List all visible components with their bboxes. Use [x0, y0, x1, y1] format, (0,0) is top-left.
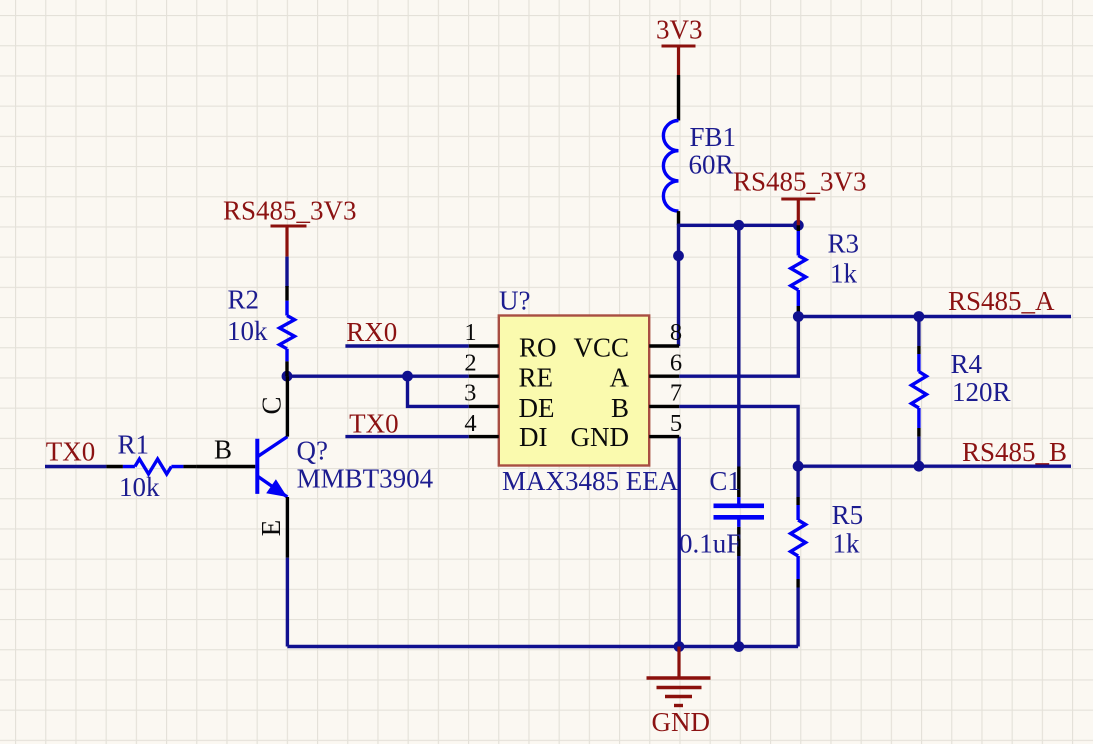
svg-text:B: B [214, 435, 232, 465]
pin 4 DI [464, 410, 547, 452]
svg-text:10k: 10k [119, 472, 160, 502]
svg-text:RS485_A: RS485_A [948, 286, 1055, 316]
svg-text:4: 4 [464, 410, 476, 437]
svg-text:RX0: RX0 [346, 317, 397, 347]
resistor R1 [106, 429, 196, 502]
svg-text:MMBT3904: MMBT3904 [297, 463, 434, 493]
power port 3V3 [656, 15, 703, 76]
pin 5 GND [571, 410, 683, 452]
svg-text:R3: R3 [828, 229, 860, 259]
wire TX0 left [45, 465, 106, 468]
svg-text:R1: R1 [118, 429, 150, 459]
svg-text:GND: GND [652, 707, 711, 737]
wire port to R2 [285, 257, 288, 287]
svg-text:R5: R5 [832, 500, 864, 530]
svg-text:RS485_3V3: RS485_3V3 [733, 167, 867, 197]
svg-text:A: A [610, 363, 630, 393]
resistor R3 [791, 225, 859, 316]
resistor R5 [791, 466, 864, 646]
power port RS485_3V3 right [733, 167, 867, 226]
junction dot [793, 311, 804, 322]
svg-text:TX0: TX0 [349, 409, 399, 439]
junction dot [674, 641, 685, 652]
junction dot [793, 220, 804, 231]
pin 6 A [610, 350, 683, 393]
capacitor C1 [679, 225, 764, 646]
svg-text:3V3: 3V3 [656, 15, 703, 45]
wire A to pin 6 [679, 317, 798, 377]
inductor FB1 [663, 75, 736, 225]
junction dot [914, 311, 925, 322]
svg-text:RO: RO [519, 333, 557, 363]
junction dot [673, 250, 684, 261]
pin 8 VCC [573, 319, 682, 362]
wire top bus VCC [679, 224, 799, 227]
svg-text:1k: 1k [833, 529, 861, 559]
svg-text:DE: DE [519, 393, 555, 423]
svg-text:FB1: FB1 [690, 122, 737, 152]
net label TX0 [349, 409, 399, 439]
svg-text:6: 6 [670, 350, 682, 377]
wire pin 5 down [678, 437, 681, 647]
svg-text:120R: 120R [952, 377, 1011, 407]
power port RS485_3V3 left [223, 196, 357, 257]
svg-text:1k: 1k [830, 259, 858, 289]
svg-text:C: C [257, 396, 287, 414]
junction dot [282, 371, 293, 382]
transistor Q1 MMBT3904 [196, 376, 433, 558]
svg-text:GND: GND [571, 422, 630, 452]
svg-text:8: 8 [670, 319, 682, 346]
svg-text:B: B [611, 393, 629, 423]
svg-text:R2: R2 [228, 284, 260, 314]
svg-text:Q?: Q? [297, 436, 328, 466]
svg-text:TX0: TX0 [46, 437, 96, 467]
junction dot [402, 371, 413, 382]
power port GND [647, 647, 711, 738]
svg-text:5: 5 [670, 410, 682, 437]
svg-text:C1: C1 [709, 466, 741, 496]
junction dot [733, 220, 744, 231]
svg-text:10k: 10k [227, 316, 268, 346]
junction dot [914, 461, 925, 472]
net label TX0 left [46, 437, 96, 467]
svg-text:E: E [256, 520, 286, 537]
svg-text:2: 2 [464, 350, 476, 377]
wire RE DE tie [287, 376, 469, 406]
IC U1 MAX3485 [499, 286, 679, 497]
wire RX0 to pin 1 [345, 344, 468, 347]
wire VCC drop to pin 8 [677, 224, 680, 346]
svg-text:1: 1 [464, 319, 476, 346]
junction dot [733, 641, 744, 652]
svg-text:MAX3485 EEA: MAX3485 EEA [502, 466, 679, 496]
net label RS485_A [948, 286, 1055, 316]
pin 3 DE [464, 380, 554, 423]
svg-text:U?: U? [499, 286, 530, 316]
net label RS485_B [962, 437, 1067, 467]
wire RS485_A row [798, 315, 1071, 318]
svg-text:RS485_3V3: RS485_3V3 [223, 196, 357, 226]
svg-text:60R: 60R [689, 150, 734, 180]
junction dot [793, 461, 804, 472]
svg-text:7: 7 [670, 380, 682, 407]
wire TX0 to pin 4 [345, 435, 468, 438]
svg-text:0.1uF: 0.1uF [679, 529, 741, 559]
svg-text:3: 3 [464, 380, 476, 407]
svg-text:VCC: VCC [573, 333, 629, 363]
pin 7 B [611, 380, 682, 423]
wire emitter to bus [286, 558, 289, 647]
resistor R2 [227, 284, 295, 376]
wire pin 7 to B [679, 406, 798, 466]
svg-text:RE: RE [519, 363, 554, 393]
resistor R4 [911, 317, 1010, 467]
pin 2 RE [464, 350, 553, 393]
svg-text:RS485_B: RS485_B [962, 437, 1067, 467]
wire bottom bus [287, 645, 798, 648]
svg-text:R4: R4 [951, 349, 983, 379]
pin 1 RO [464, 319, 556, 362]
net label RX0 [346, 317, 397, 347]
svg-text:DI: DI [519, 422, 548, 452]
wire RS485_B row [798, 465, 1071, 468]
